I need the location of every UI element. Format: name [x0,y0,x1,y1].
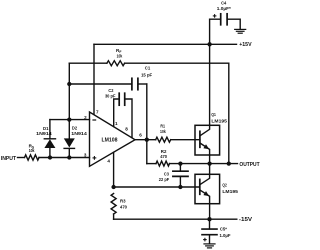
wire input to Rs [18,157,25,159]
diode D2 1N914 [64,138,75,148]
svg-text:6: 6 [139,133,142,138]
capacitor C1 15pF [132,78,138,89]
node output / C3 top tap [178,161,182,165]
wire Q1 collector riser [209,44,211,125]
node input / D2 junction [67,155,71,159]
node Q2 base / C3 bottom tap [178,185,182,189]
svg-text:LM195: LM195 [211,118,227,124]
wire -15V rail [114,218,237,220]
capacitor C5 1.0uF [202,229,217,235]
node summing / C1 tap [67,82,71,86]
svg-text:470: 470 [160,154,167,159]
wire feedback Rf line right [125,62,229,64]
transistor Q1 LM195 box [195,125,220,155]
svg-text:C3: C3 [164,171,169,176]
wire op-amp output to R1 [135,139,156,141]
C5 polarity plus [203,238,207,242]
wire pin 4 to Q2 base [114,186,200,188]
node output / Rf feedback tap [227,161,231,165]
svg-text:OUTPUT: OUTPUT [239,162,260,168]
svg-text:1N914: 1N914 [36,131,52,136]
wire C1 right lead [139,83,147,85]
node op-amp output pin 6 [145,138,149,142]
svg-text:R3: R3 [120,199,126,204]
svg-text:C4: C4 [221,1,226,7]
svg-text:2: 2 [84,115,87,120]
svg-text:LM195: LM195 [222,189,238,195]
wire C2 pin 8 stub [125,99,132,138]
svg-text:22 pF: 22 pF [159,177,170,182]
resistor R1 10k [156,137,171,142]
wire C5 top lead [209,219,211,229]
svg-text:C1: C1 [145,65,151,70]
svg-text:INPUT: INPUT [1,156,17,162]
wire C3 bottom lead [179,176,181,187]
svg-text:C2: C2 [108,88,113,93]
svg-text:1.0µF: 1.0µF [220,233,231,238]
svg-text:4: 4 [107,158,110,163]
wire feedback Rf line left [69,62,107,64]
wire R3 bottom to -15V rail [113,214,115,219]
wire Rs to pin 3 [39,157,90,159]
svg-text:1.0µF*: 1.0µF* [217,6,231,12]
wire C5 bottom lead [209,235,211,244]
wire C4 right lead to ground [228,19,241,29]
transistor Q2 symbol [200,174,210,203]
wire R2 line left [147,163,156,165]
op-amp minus sign pin2 [92,119,96,121]
node input / D1 junction [48,155,52,159]
svg-text:LM108: LM108 [102,138,118,144]
svg-text:Q1: Q1 [211,112,216,118]
svg-text:1: 1 [115,121,118,126]
wire C1 riser / R2 drop [146,84,148,164]
wire summing node riser [68,63,70,138]
svg-text:470: 470 [120,205,128,210]
wire C1 left lead [69,83,131,85]
wire Q2 emitter to -15V rail [209,204,211,220]
node summing / pin 2 tap [67,117,71,121]
svg-text:C5*: C5* [220,227,227,232]
op-amp plus sign pin3 [93,156,97,160]
svg-text:-15V: -15V [239,217,253,223]
svg-text:10k: 10k [160,129,166,134]
svg-text:3: 3 [84,152,87,157]
capacitor C2 30pF [119,93,125,105]
wire D2 bottom lead [68,149,70,158]
C4 polarity plus [213,14,217,18]
wire C4 left lead riser [210,19,221,44]
svg-text:15 pF: 15 pF [141,72,152,77]
diode D1 1N914 [44,139,55,148]
svg-text:1N914: 1N914 [71,131,87,136]
wire Q1 emitter to output node to Q2 collector [209,155,211,174]
wire R1 to Q1 base [171,139,200,141]
svg-text:8: 8 [125,126,128,131]
svg-text:10k: 10k [117,54,123,59]
ground C5 [204,244,215,248]
node pin 4 / R3 junction [111,185,115,189]
svg-text:+15V: +15V [239,42,252,48]
wire pin 2 inverting input [50,119,90,121]
wire C2 pin 1 stub [114,99,119,127]
resistor Rf 10k [107,61,125,66]
wire pin 4 stub [113,152,115,187]
svg-text:Q2: Q2 [222,182,227,188]
wire Rf right riser to output [228,63,230,163]
transistor Q2 LM195 box [195,174,220,203]
svg-text:7: 7 [96,109,99,114]
ground C4 [235,29,246,33]
transistor Q1 symbol [200,125,210,155]
wire +15V rail [94,43,237,45]
resistor R2 470 [156,161,170,166]
node +15V / C4 junction [207,42,211,46]
wire D1 bottom lead [49,148,51,158]
capacitor C4 1.0uF [221,14,227,25]
wire D1 top lead [49,120,51,139]
wire C3 top lead [179,164,181,172]
resistor Rs 10k [25,155,40,160]
capacitor C3 22pF [173,171,188,176]
node -15V / Q2 emitter / C5 junction [207,217,211,221]
op-amp U1 LM108 triangle [90,112,136,166]
wire pin 7 riser to +15V [93,44,95,114]
wire output line [170,163,238,165]
svg-text:30 pF: 30 pF [105,93,116,98]
node output / Q1 emitter / Q2 collector [207,161,211,165]
resistor R3 470 [111,194,116,215]
svg-text:10k: 10k [29,148,35,153]
